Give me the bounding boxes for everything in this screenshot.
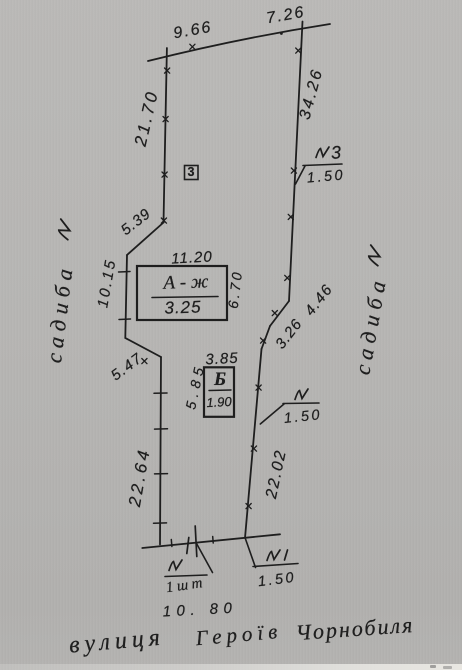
dim 10.15 bbox=[94, 257, 119, 309]
dim 22.02 bbox=[263, 448, 291, 501]
building A label underline bbox=[152, 297, 218, 298]
N symbol of left sadyba bbox=[55, 219, 74, 240]
building B label bbox=[214, 369, 226, 391]
N symbol of gate callout bbox=[169, 560, 182, 571]
building B rectangle bbox=[204, 367, 234, 417]
street name word 1 bbox=[68, 624, 166, 659]
dim 34.26 bbox=[297, 66, 328, 121]
N symbol of right sadyba bbox=[365, 245, 384, 266]
callout N mid leader bbox=[260, 403, 319, 424]
boundary top line (street frontage 9.66 + 7.26) bbox=[148, 24, 330, 61]
building B label underline bbox=[209, 389, 231, 392]
building B value 1.90 bbox=[206, 394, 232, 410]
dim 11.20 building A width bbox=[171, 248, 213, 267]
N symbol of callout N3 bbox=[316, 147, 329, 158]
street name word 3 bbox=[295, 612, 415, 646]
building A rectangle bbox=[137, 266, 227, 320]
callout N3 digit bbox=[330, 142, 341, 164]
survey dash ticks bbox=[119, 272, 214, 547]
bottom photo edge light strip bbox=[0, 664, 462, 670]
mid callout value 1.50 bbox=[283, 407, 323, 427]
dim 7.26 bbox=[265, 4, 307, 29]
boundary left side 21.70 bbox=[164, 48, 167, 223]
point number 3 bbox=[188, 165, 195, 179]
faint specks on bottom strip bbox=[430, 665, 436, 668]
boundary right side 22.02 bbox=[245, 349, 262, 538]
dim 5.39 bbox=[118, 205, 155, 239]
dim 6.70 building A height bbox=[225, 269, 246, 310]
right neighbour label sadyba bbox=[349, 273, 392, 376]
callout N3 value 1.50 bbox=[306, 167, 345, 186]
dim 22.64 bbox=[125, 446, 155, 509]
boundary right side 34.26 bbox=[289, 22, 303, 302]
callout N1 value 1.50 bbox=[257, 570, 297, 591]
street name word 2 bbox=[195, 619, 283, 651]
boundary segment 3.26 bbox=[262, 326, 271, 349]
dim 4.46 bbox=[301, 281, 336, 319]
survey tick marks (x) bbox=[142, 44, 301, 509]
slash digit 1 of N1 bbox=[285, 550, 288, 560]
dim 3.26 bbox=[272, 316, 306, 353]
boundary segment 5.47 bbox=[125, 338, 161, 357]
N symbol of callout N1 bbox=[267, 550, 280, 561]
boxed point number 3 bbox=[185, 166, 199, 180]
N symbol of mid callout bbox=[295, 389, 308, 400]
building A label A-zh bbox=[163, 271, 209, 295]
boundary bottom line bbox=[142, 534, 280, 548]
boundary segment 22.64 bbox=[160, 357, 161, 545]
boundary segment 4.46 bbox=[270, 301, 289, 326]
dim 5.85 building B height bbox=[182, 361, 207, 411]
boundary segment 10.15 bbox=[125, 255, 127, 338]
gate double stroke bbox=[187, 526, 197, 557]
dim 21.70 bbox=[131, 88, 163, 149]
left neighbour label sadyba bbox=[41, 262, 79, 365]
dim 5.47 bbox=[108, 350, 146, 385]
callout N3 leader bbox=[296, 164, 343, 184]
callout N1 leader bbox=[246, 539, 299, 568]
dot on top line bbox=[280, 32, 283, 35]
building A value 3.25 bbox=[164, 297, 202, 318]
dim 9.66 bbox=[172, 19, 214, 44]
boundary segment 5.39 bbox=[127, 223, 164, 256]
gate callout text 1sht bbox=[165, 575, 207, 597]
dim 3.85 building B width bbox=[205, 350, 239, 369]
street width 10.80 bbox=[162, 600, 238, 621]
callout gate 1sht leader bbox=[165, 544, 213, 577]
